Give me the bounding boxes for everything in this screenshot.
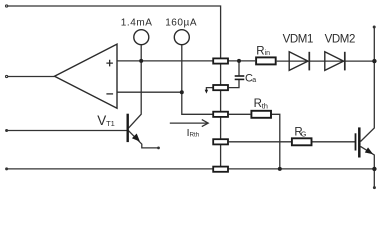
svg-text:T1: T1 <box>106 119 115 128</box>
svg-text:a: a <box>252 77 256 84</box>
svg-text:160µA: 160µA <box>165 18 197 29</box>
svg-text:G: G <box>301 131 306 138</box>
svg-text:V: V <box>97 113 106 128</box>
svg-text:R: R <box>256 45 264 57</box>
svg-text:Rth: Rth <box>190 132 200 139</box>
svg-text:in: in <box>265 50 271 57</box>
svg-text:R: R <box>254 98 262 110</box>
svg-text:VDM2: VDM2 <box>325 33 355 45</box>
svg-text:th: th <box>262 101 268 110</box>
svg-text:VDM1: VDM1 <box>283 33 313 45</box>
svg-text:1.4mA: 1.4mA <box>121 18 153 29</box>
